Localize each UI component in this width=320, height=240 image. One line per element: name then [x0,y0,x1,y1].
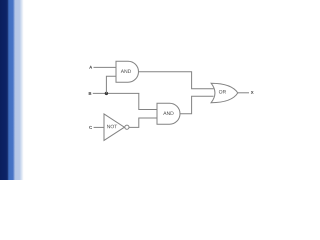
label NOT [107,125,117,129]
wire NOT output to AND2 [129,118,157,127]
node A label [89,66,92,69]
wire AND1 output to OR [139,72,214,89]
and-gate AND1 U1 [116,61,138,82]
node X label [251,91,254,94]
label OR [219,90,226,94]
inverter NOT U3 [104,114,124,140]
wire AND2 output to OR [180,96,214,114]
blue sidebar stripe [0,0,26,180]
label AND1 [121,70,131,73]
wire B down-branch to AND2 [139,93,157,109]
node C label [89,126,92,129]
or-gate OR U4 [211,83,238,103]
wire A to AND1 [94,66,117,68]
wire B horizontal [93,92,140,94]
label AND2 [163,112,173,115]
wire OR output [238,92,249,94]
wire C to NOT [94,126,104,128]
wire B up-branch to AND1 [106,76,116,93]
and-gate AND2 U2 [157,103,180,124]
node B label [89,92,92,95]
junction dot on B [105,92,108,95]
